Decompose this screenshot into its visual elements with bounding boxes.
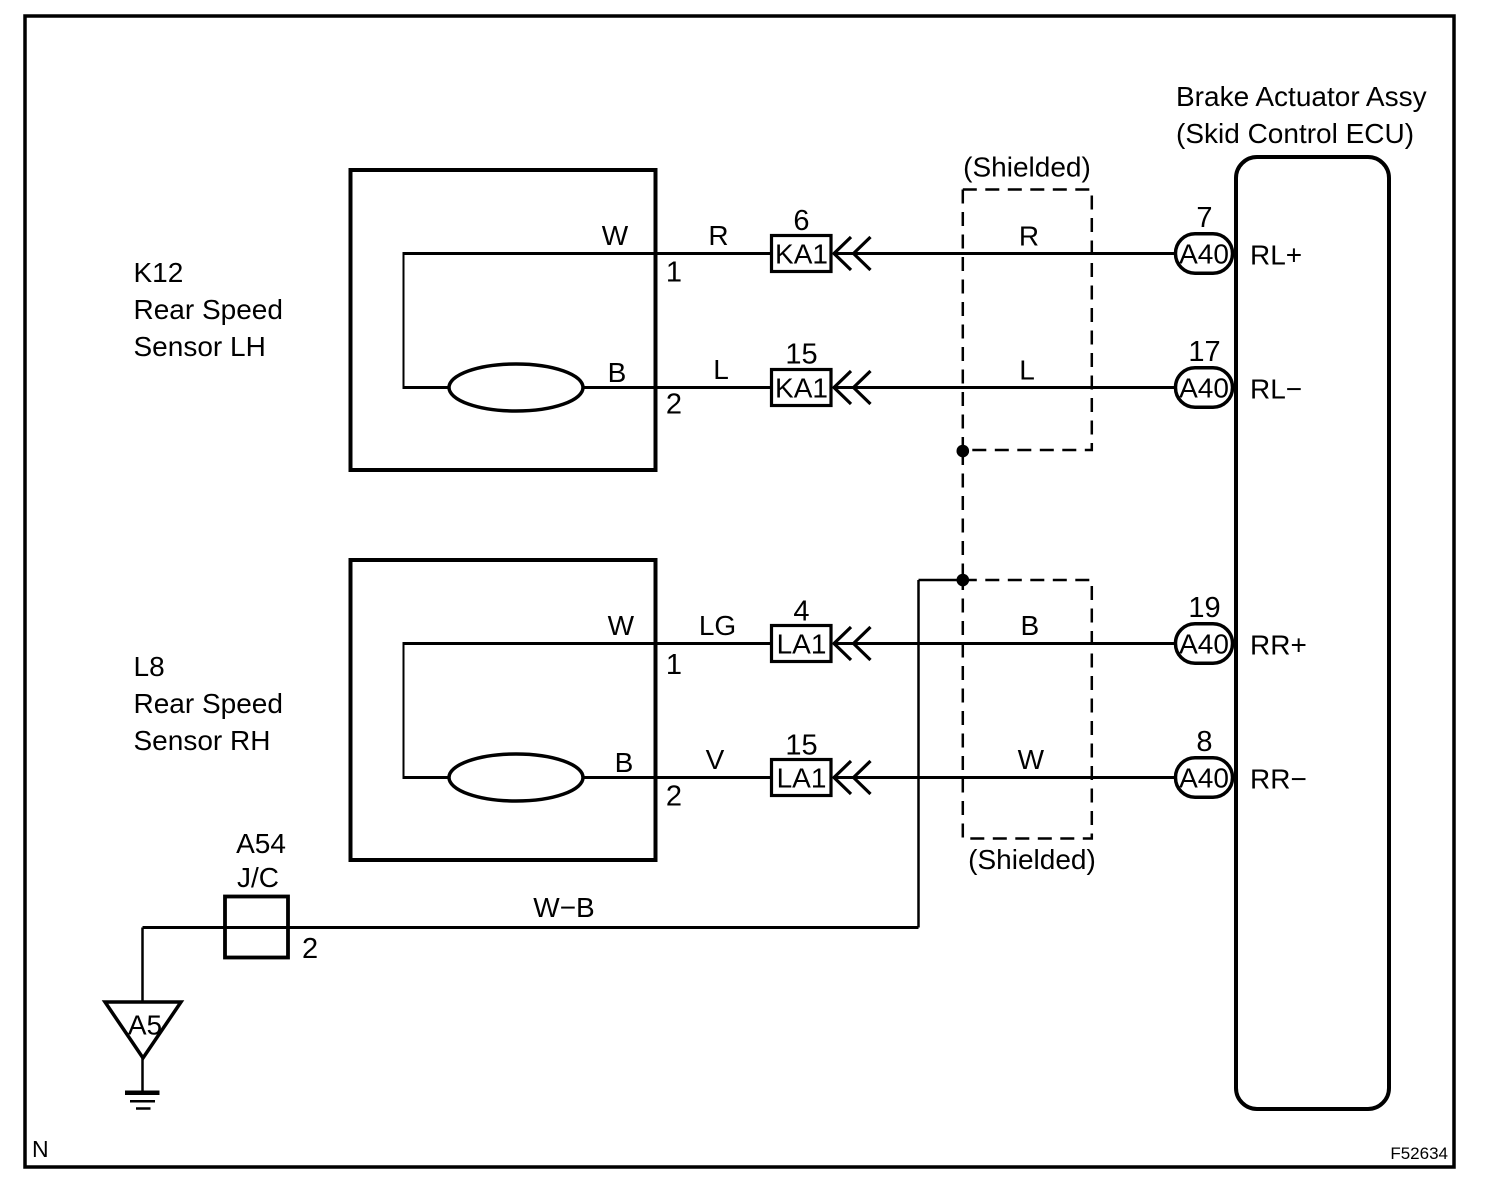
svg-text:A5: A5 — [128, 1010, 162, 1041]
svg-text:RL+: RL+ — [1250, 240, 1302, 271]
wire shield drain to W-B — [919, 579, 963, 582]
svg-text:RR+: RR+ — [1250, 630, 1307, 661]
svg-text:1: 1 — [666, 649, 682, 681]
svg-text:A40: A40 — [1179, 239, 1229, 270]
svg-text:4: 4 — [793, 596, 809, 628]
junction dot upper shield — [957, 445, 970, 458]
wire B to A40 pin19 — [833, 642, 1175, 645]
svg-text:19: 19 — [1188, 592, 1220, 624]
svg-text:(Shielded): (Shielded) — [968, 844, 1096, 875]
wire W to A40 pin8 — [833, 776, 1175, 779]
svg-text:F52634: F52634 — [1390, 1144, 1448, 1163]
svg-text:L8: L8 — [134, 651, 165, 682]
svg-text:KA1: KA1 — [775, 239, 828, 270]
svg-text:2: 2 — [302, 933, 318, 965]
connector A40 pin 19 (RR+) — [1176, 592, 1233, 663]
svg-text:8: 8 — [1196, 726, 1212, 758]
svg-text:A40: A40 — [1179, 373, 1229, 404]
sensor K12 label — [134, 257, 283, 362]
svg-text:J/C: J/C — [237, 862, 279, 893]
svg-text:6: 6 — [793, 205, 809, 237]
ground symbol — [125, 1093, 160, 1109]
node: Brake Actuator Assy (Skid Control ECU) label — [1176, 81, 1427, 149]
shield interconnect dashed wire — [962, 451, 965, 580]
svg-text:LG: LG — [699, 610, 736, 641]
svg-text:K12: K12 — [134, 257, 184, 288]
shield box lower (Shielded) — [963, 580, 1092, 839]
wire L8 pin2 to LA1 (B/V) — [404, 776, 771, 779]
wire K12 pin1 to KA1 (W/R) — [404, 252, 771, 255]
wire K12 pin2 to KA1 (B/L) — [404, 386, 771, 389]
svg-text:LA1: LA1 — [777, 763, 827, 794]
junction connector A54 J/C box — [225, 897, 288, 958]
svg-text:(Skid Control ECU): (Skid Control ECU) — [1176, 118, 1414, 149]
svg-text:W: W — [608, 610, 635, 641]
svg-text:Rear Speed: Rear Speed — [134, 294, 283, 325]
svg-text:1: 1 — [666, 257, 682, 289]
connector KA1 pin 6 — [772, 205, 832, 272]
svg-text:L: L — [1019, 355, 1035, 386]
svg-text:B: B — [608, 357, 627, 388]
wire L8 pin1 to LA1 (W/LG) — [404, 642, 771, 645]
svg-text:15: 15 — [785, 730, 817, 762]
arrow chevrons wire RR+ — [834, 627, 871, 660]
wire R to A40 pin7 — [833, 252, 1175, 255]
sensor L8 box — [351, 560, 656, 860]
svg-text:Sensor LH: Sensor LH — [134, 331, 266, 362]
connector KA1 pin 15 — [772, 339, 832, 406]
ground triangle A5 — [105, 1002, 181, 1058]
wire triangle to ground symbol — [141, 1058, 144, 1091]
svg-text:15: 15 — [785, 339, 817, 371]
svg-text:R: R — [1019, 221, 1039, 252]
svg-text:LA1: LA1 — [777, 629, 827, 660]
svg-text:W: W — [1018, 744, 1045, 775]
ECU box Brake Actuator Assy — [1236, 157, 1389, 1109]
connector A40 pin 8 (RR-) — [1176, 726, 1233, 797]
wire K12 internal vertical — [403, 252, 405, 389]
svg-text:2: 2 — [666, 781, 682, 813]
connector LA1 pin 15 — [772, 730, 832, 796]
svg-text:RR−: RR− — [1250, 764, 1307, 795]
svg-text:Rear Speed: Rear Speed — [134, 688, 283, 719]
svg-text:L: L — [713, 354, 729, 385]
sensor K12 coil ellipse — [449, 364, 583, 411]
connector A40 pin 7 (RL+) — [1176, 202, 1233, 273]
svg-text:W−B: W−B — [533, 892, 594, 923]
wire L8 internal vertical — [403, 642, 405, 779]
wire W-B down to ground triangle — [141, 928, 144, 1003]
svg-text:RL−: RL− — [1250, 374, 1302, 405]
svg-text:V: V — [706, 744, 725, 775]
junction dot lower shield — [957, 574, 970, 587]
svg-text:(Shielded): (Shielded) — [963, 152, 1091, 183]
sensor L8 coil ellipse — [449, 754, 583, 801]
svg-text:B: B — [615, 747, 634, 778]
svg-text:Sensor RH: Sensor RH — [134, 725, 271, 756]
wire W-B horizontal — [143, 926, 919, 929]
shield box upper (Shielded) — [963, 190, 1092, 451]
sensor K12 box — [351, 170, 656, 470]
svg-text:A40: A40 — [1179, 763, 1229, 794]
svg-text:7: 7 — [1196, 202, 1212, 234]
wire L to A40 pin17 — [833, 386, 1175, 389]
svg-text:R: R — [708, 220, 728, 251]
svg-text:17: 17 — [1188, 336, 1220, 368]
svg-text:2: 2 — [666, 389, 682, 421]
arrow chevrons wire RR- — [834, 761, 871, 794]
svg-text:N: N — [32, 1136, 49, 1162]
arrow chevrons wire RL+ — [834, 237, 871, 270]
arrow chevrons wire RL- — [834, 371, 871, 404]
connector LA1 pin 4 — [772, 596, 832, 662]
svg-text:A40: A40 — [1179, 629, 1229, 660]
connector A40 pin 17 (RL-) — [1176, 336, 1233, 407]
svg-text:KA1: KA1 — [775, 373, 828, 404]
svg-text:A54: A54 — [236, 828, 286, 859]
svg-text:B: B — [1020, 610, 1039, 641]
svg-text:Brake Actuator Assy: Brake Actuator Assy — [1176, 81, 1427, 112]
svg-text:W: W — [602, 220, 629, 251]
sensor L8 label — [134, 651, 283, 756]
